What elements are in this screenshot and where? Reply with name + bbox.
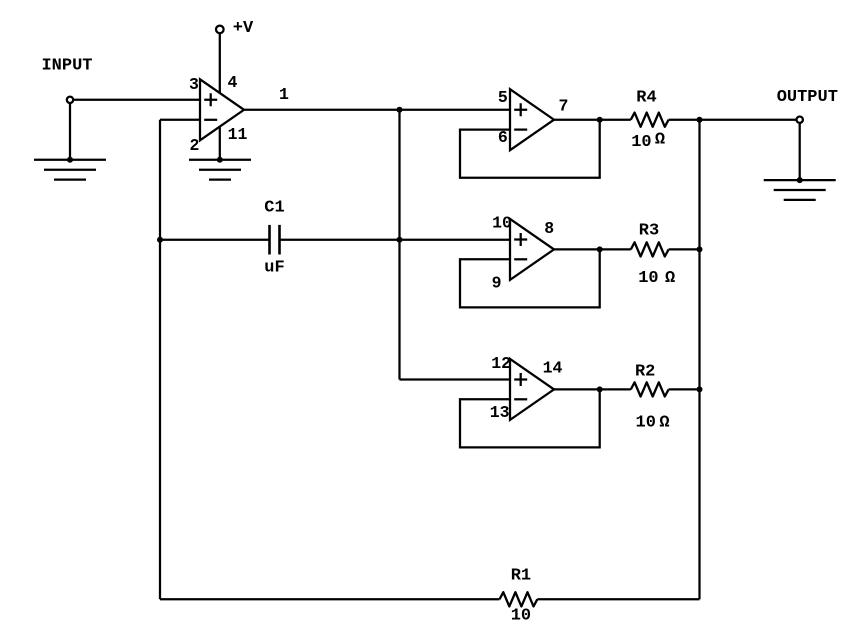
wire U1 -in to left rail: [160, 119, 200, 121]
wire R3 to output rail: [669, 248, 700, 250]
svg-text:4: 4: [228, 73, 238, 92]
wire U2 feedback loop: [460, 120, 600, 178]
svg-text:10Ω: 10Ω: [631, 130, 665, 152]
op-amp U2 (buffer 1): [510, 89, 554, 150]
resistor R1: [500, 592, 538, 606]
svg-text:9: 9: [492, 273, 502, 292]
svg-text:uF: uF: [264, 258, 284, 277]
wire +V pin4 / pin11 to ground: [219, 33, 221, 159]
junction node 1 / C1: [397, 237, 403, 243]
capacitor C1: [270, 225, 280, 255]
svg-text:R3: R3: [639, 222, 659, 241]
wire U4 feedback loop: [460, 389, 600, 447]
wire to U4 +in: [400, 378, 511, 380]
wire R4 to output rail: [669, 119, 700, 121]
svg-text:6: 6: [498, 128, 508, 147]
svg-text:13: 13: [490, 403, 510, 422]
junction U3 feedback: [597, 246, 603, 252]
op-amp U4 (buffer 3): [510, 359, 554, 420]
junction output ground: [797, 177, 803, 183]
junction C1 tap: [157, 237, 163, 243]
svg-text:10: 10: [511, 607, 531, 626]
junction input ground: [67, 157, 73, 163]
svg-text:OUTPUT: OUTPUT: [777, 88, 838, 107]
junction U1 ground: [217, 157, 223, 163]
svg-text:12: 12: [491, 354, 511, 373]
svg-text:11: 11: [228, 125, 248, 144]
wire bottom right segment: [537, 598, 699, 600]
svg-text:+V: +V: [233, 19, 254, 38]
svg-text:1: 1: [279, 85, 289, 104]
wire bottom left segment: [160, 598, 500, 600]
svg-text:5: 5: [498, 88, 508, 107]
wire input terminal to U1 +in: [73, 99, 200, 101]
ground (op-amp U1): [189, 160, 251, 180]
op-amp U3 (buffer 2): [510, 219, 554, 280]
wire U4 output: [554, 388, 631, 390]
wire U3 output: [554, 248, 631, 250]
svg-text:R2: R2: [635, 362, 655, 381]
wire input terminal to ground: [69, 103, 71, 160]
junction U4 feedback: [597, 386, 603, 392]
svg-text:3: 3: [189, 75, 199, 94]
wire node 1 down rail: [398, 110, 400, 380]
junction U2 feedback: [597, 117, 603, 123]
wire U2 output: [554, 119, 631, 121]
OUTPUT terminal: [797, 117, 803, 123]
svg-text:R4: R4: [636, 88, 656, 107]
+V terminal: [216, 26, 224, 34]
wire OUTPUT terminal to ground: [799, 123, 801, 180]
resistor R3: [631, 242, 669, 256]
op-amp U1: [200, 79, 244, 140]
junction R3 rail: [697, 246, 703, 252]
svg-text:C1: C1: [264, 199, 284, 218]
svg-text:10: 10: [492, 213, 512, 232]
svg-text:R1: R1: [511, 567, 531, 586]
wire left feedback rail: [159, 120, 161, 600]
junction R4 rail: [697, 117, 703, 123]
wire U3 feedback loop: [460, 249, 600, 307]
input terminal: [67, 97, 73, 103]
junction R2 rail: [697, 386, 703, 392]
wire output rail: [698, 120, 700, 600]
wire to U2 +in: [400, 239, 511, 241]
junction node 1: [397, 107, 403, 113]
svg-text:8: 8: [544, 219, 554, 238]
resistor R2: [631, 382, 669, 396]
svg-text:10Ω: 10Ω: [636, 413, 670, 432]
ground (output): [764, 180, 836, 200]
svg-text:14: 14: [543, 358, 563, 377]
wire rail to OUTPUT terminal: [700, 119, 797, 121]
ground (input): [34, 160, 106, 180]
wire C1 left: [160, 239, 269, 241]
svg-text:10Ω: 10Ω: [638, 269, 675, 288]
resistor R4: [631, 113, 669, 127]
wire C1 right: [281, 239, 400, 241]
svg-text:INPUT: INPUT: [41, 57, 92, 76]
wire node 1: [244, 109, 510, 111]
wire R2 to output rail: [669, 388, 700, 390]
svg-text:2: 2: [190, 136, 200, 155]
svg-text:7: 7: [559, 97, 569, 116]
